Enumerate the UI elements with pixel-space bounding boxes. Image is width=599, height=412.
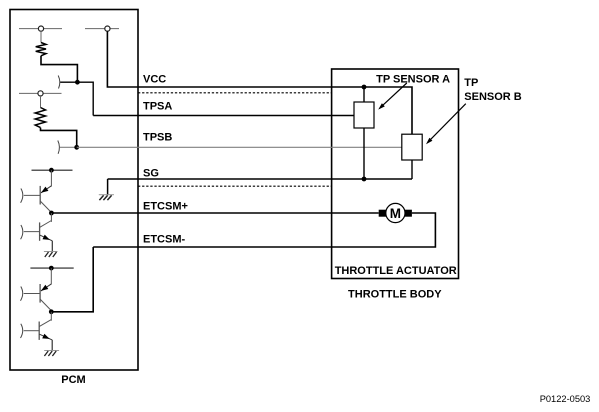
- svg-text:TPSB: TPSB: [143, 132, 172, 144]
- terminal T1 crossbar: [19, 28, 62, 30]
- wire T3 to resistor R2: [40, 96, 42, 108]
- motor M terminal left: [379, 210, 386, 217]
- connector arc at Q3 base: [21, 287, 23, 301]
- node sensor A / SG junction: [362, 177, 367, 182]
- wire ETCSM+ row: [51, 212, 378, 214]
- svg-text:VCC: VCC: [143, 74, 166, 86]
- node TPSB junction: [74, 145, 79, 150]
- THROTTLE BODY box: [332, 69, 459, 279]
- svg-text:ETCSM-: ETCSM-: [143, 234, 186, 246]
- svg-text:SENSOR B: SENSOR B: [464, 91, 522, 103]
- node VCC branch: [362, 85, 367, 90]
- transistor Q3 (PNP): [24, 284, 52, 311]
- wire R1 to TPSA junction: [41, 56, 77, 82]
- transistor Q4 (NPN): [24, 320, 53, 351]
- shield dotted line lower: [138, 185, 332, 187]
- ground G-SG: [99, 195, 114, 200]
- wire SG row: [108, 178, 412, 180]
- wire ETCSM- into PCM: [51, 247, 93, 312]
- node TPSA junction: [75, 80, 80, 85]
- terminal T2 circle: [105, 26, 110, 31]
- svg-text:M: M: [390, 206, 401, 221]
- node rail 2: [49, 266, 54, 271]
- wire R2 to TPSB junction: [41, 128, 77, 148]
- terminal T2 crossbar: [85, 28, 119, 30]
- svg-text:TP: TP: [464, 77, 478, 89]
- wire rail to Q1 emitter: [50, 170, 52, 186]
- resistor R1: [36, 43, 46, 56]
- ground G1: [44, 252, 58, 258]
- transistor Q2 (NPN): [24, 221, 53, 252]
- rail for Q3/Q4: [30, 267, 73, 269]
- svg-text:P0122-0503: P0122-0503: [540, 394, 591, 404]
- PCM box: [10, 10, 138, 371]
- svg-text:THROTTLE BODY: THROTTLE BODY: [348, 289, 442, 301]
- resistor R2: [35, 108, 45, 128]
- wire T1 to resistor R1: [40, 31, 42, 42]
- connector arc at TPSA node: [58, 76, 60, 89]
- wire VCC net: [107, 31, 412, 134]
- TP sensor A box: [354, 102, 374, 128]
- rail for Q1/Q2: [32, 169, 73, 171]
- connector arc at Q2 base: [21, 225, 23, 239]
- wire TP sensor A to SG: [363, 128, 365, 179]
- motor M circle: [386, 203, 405, 222]
- wire motor to ETCSM-: [93, 213, 435, 247]
- node rail 1: [49, 168, 54, 173]
- wire TPSA row: [93, 115, 354, 117]
- svg-text:TP SENSOR A: TP SENSOR A: [376, 74, 450, 86]
- connector arc at TPSB node: [58, 141, 60, 154]
- svg-text:THROTTLE ACTUATOR: THROTTLE ACTUATOR: [335, 265, 457, 277]
- wire SG to ground: [107, 179, 109, 195]
- shield dotted line upper: [138, 92, 332, 94]
- wire TP sensor B to SG: [411, 160, 413, 179]
- ground G2: [44, 351, 59, 357]
- TP sensor B box: [402, 134, 422, 160]
- wire junction to Q4: [50, 312, 52, 321]
- terminal T3 crossbar: [19, 92, 62, 94]
- svg-text:PCM: PCM: [61, 374, 85, 386]
- svg-text:SG: SG: [143, 168, 159, 180]
- node ETCSM+ junction: [49, 211, 54, 216]
- wire TPSB row: [77, 146, 402, 148]
- arrow to sensor B: [426, 104, 466, 145]
- wire arc to TPSA junction: [60, 81, 77, 83]
- wire VCC branch to TP sensor A: [363, 87, 365, 102]
- node ETCSM- junction: [49, 309, 54, 314]
- svg-text:TPSA: TPSA: [143, 101, 172, 113]
- transistor Q1 (PNP): [24, 186, 52, 213]
- wire TPSA junction to TPSA row: [77, 82, 93, 115]
- arrow to sensor A: [378, 83, 407, 110]
- wire junction to Q2: [50, 213, 52, 222]
- wire arc to TPSB junction: [60, 146, 77, 148]
- connector arc at Q1 base: [21, 189, 23, 203]
- wire rail to Q3 emitter: [50, 268, 52, 284]
- motor M terminal right: [404, 210, 412, 217]
- svg-text:ETCSM+: ETCSM+: [143, 201, 188, 213]
- terminal T3 circle: [38, 91, 43, 96]
- connector arc at Q4 base: [21, 324, 23, 338]
- terminal T1 circle: [38, 26, 43, 31]
